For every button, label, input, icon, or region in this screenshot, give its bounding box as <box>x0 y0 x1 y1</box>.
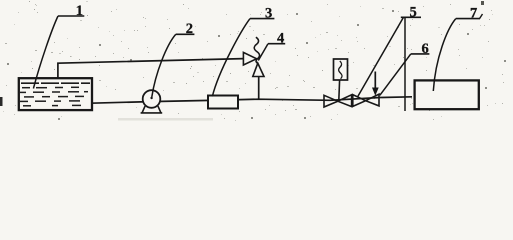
label 5 <box>358 4 422 97</box>
edge mark left <box>0 97 3 106</box>
component 3 box <box>208 96 238 109</box>
vertical line at label 5 <box>404 17 406 111</box>
label 4 <box>258 31 285 61</box>
actuator stem <box>338 80 341 101</box>
tank T1 <box>19 78 92 110</box>
valve 6 (bowtie) <box>353 94 379 106</box>
pump P2 <box>141 90 163 113</box>
valve 5 (bowtie with actuator) <box>324 95 352 107</box>
relief valve 4 <box>243 37 264 99</box>
liquid hatch dashes <box>20 87 88 106</box>
flow arrow <box>372 72 379 96</box>
spring squiggle <box>254 37 259 63</box>
horizontal triangle <box>243 52 256 65</box>
main pipe <box>91 97 412 103</box>
branch from main pipe <box>258 77 260 100</box>
tank T7 <box>415 80 479 109</box>
vertical triangle <box>253 63 264 76</box>
scan speckle noise <box>3 1 506 121</box>
paper background <box>0 0 513 122</box>
liquid level <box>21 82 90 84</box>
label 6 <box>380 41 430 95</box>
label 1 <box>33 3 84 89</box>
pump base <box>141 106 163 113</box>
label 2 <box>150 21 194 99</box>
label 3 <box>212 5 274 96</box>
vent pipe (dip pipe + return line to relief valve) <box>58 59 244 87</box>
label 7 <box>433 5 482 91</box>
actuator box with spring <box>334 59 348 101</box>
